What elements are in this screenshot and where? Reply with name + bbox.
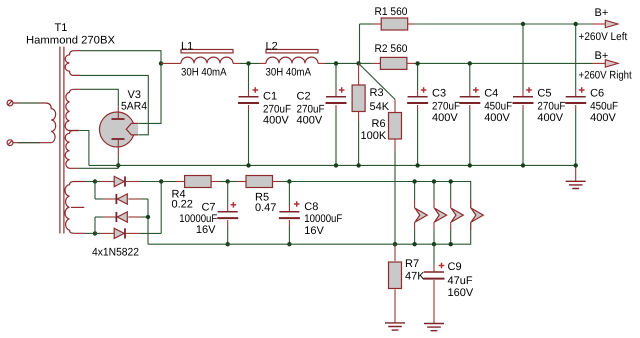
svg-text:4x1N5822: 4x1N5822: [92, 247, 139, 259]
svg-text:30H 40mA: 30H 40mA: [266, 67, 312, 79]
wire: HV winding bottom tap to cathode bottom: [80, 75, 148, 134]
node: Z3 bottom: [449, 242, 453, 246]
protection diode Z3: [451, 182, 464, 245]
wire: primary net segments: [18, 102, 40, 104]
node: C5 bottom: [521, 163, 525, 167]
node: winding4 top junction: [93, 179, 97, 183]
svg-text:270uF: 270uF: [432, 101, 460, 113]
svg-text:C7: C7: [201, 202, 215, 214]
wire: winding2 bottom tap to ground rail: [79, 131, 89, 166]
node: R3 bottom: [356, 163, 360, 167]
svg-text:160V: 160V: [448, 287, 474, 299]
svg-text:C3: C3: [432, 88, 446, 100]
svg-text:C5: C5: [537, 88, 551, 100]
svg-text:R1 560: R1 560: [375, 6, 408, 18]
resistor R6: [389, 99, 402, 244]
node: rectifier output junction: [159, 61, 163, 65]
diode D2 1N5822: [95, 194, 148, 204]
svg-text:400V: 400V: [590, 112, 616, 124]
diode D3 1N5822: [95, 212, 148, 222]
svg-text:+260V Right: +260V Right: [579, 70, 632, 82]
node: C2 bottom: [334, 163, 338, 167]
svg-text:47K: 47K: [405, 271, 425, 283]
svg-text:400V: 400V: [432, 112, 458, 124]
svg-text:400V: 400V: [537, 112, 563, 124]
inductor L1: [181, 50, 233, 64]
svg-text:54K: 54K: [370, 101, 390, 113]
primary terminal 1: [7, 100, 13, 106]
node: Z1 top: [412, 179, 416, 183]
resistor R7: [389, 244, 402, 323]
capacitor C6: [565, 24, 586, 165]
svg-text:R6: R6: [372, 118, 386, 130]
node: main B+ junction: [356, 61, 360, 65]
wire: branch to D2: [94, 182, 96, 200]
svg-text:450uF: 450uF: [484, 101, 512, 113]
protection diode Z4: [471, 200, 484, 230]
wire: cathode top to L1 junction node: [139, 63, 162, 123]
svg-text:16V: 16V: [196, 224, 216, 236]
diode D1 1N5822: [95, 176, 161, 186]
wire: winding4 bottom tap to D4: [85, 232, 95, 234]
protection diode Z2: [434, 182, 447, 245]
wire: winding4 top tap to D1: [85, 181, 95, 183]
capacitor C3: [407, 63, 428, 165]
node: C4 top: [468, 61, 472, 65]
node: C6 / ground: [574, 163, 578, 167]
node: C8 top: [287, 179, 291, 183]
svg-text:C9: C9: [448, 261, 462, 273]
svg-text:L1: L1: [181, 41, 193, 53]
resistor R1: [360, 18, 593, 30]
svg-text:450uF: 450uF: [590, 101, 618, 113]
svg-text:B+: B+: [595, 7, 609, 19]
capacitor C8: [279, 182, 300, 245]
ground symbol main: [575, 165, 577, 181]
svg-text:0.47: 0.47: [255, 202, 276, 214]
primary terminal 2: [7, 140, 13, 146]
svg-text:100K: 100K: [361, 130, 387, 142]
svg-text:T1: T1: [55, 22, 68, 34]
supply arrow B+ left: [592, 20, 618, 27]
svg-text:10000uF: 10000uF: [304, 213, 342, 225]
svg-text:R7: R7: [405, 258, 419, 270]
svg-text:270uF: 270uF: [537, 101, 565, 113]
node: C3 top: [415, 61, 419, 65]
wire: plate1 to winding2 top tap: [80, 89, 118, 106]
svg-text:C2: C2: [297, 91, 311, 103]
node: D3 junction: [146, 215, 150, 219]
svg-text:400V: 400V: [263, 115, 289, 127]
svg-text:5AR4: 5AR4: [121, 101, 147, 113]
capacitor C5: [513, 24, 534, 165]
inductor L2: [266, 50, 318, 64]
node: plus output of bridge: [159, 179, 163, 183]
capacitor C4: [459, 63, 480, 165]
diode D4 1N5822: [95, 228, 161, 238]
wire: branch to D3: [94, 217, 96, 233]
wire: L1 to L2: [233, 62, 240, 64]
protection diode Z1: [415, 182, 428, 245]
node: Z3 top: [449, 179, 453, 183]
capacitor C9: [424, 244, 445, 323]
svg-text:0.22: 0.22: [172, 199, 193, 211]
node: C4 bottom: [468, 163, 472, 167]
node: C5 top: [521, 22, 525, 26]
svg-text:+260V Left: +260V Left: [579, 31, 628, 43]
node: C1 top: [246, 61, 250, 65]
wire: bottom minus rail: [148, 222, 471, 244]
resistor R2: [359, 57, 592, 69]
node: Z2 top: [432, 179, 436, 183]
supply arrow B+ right: [592, 60, 618, 67]
wire: D2/D3 anodes join, to bottom rail: [147, 199, 149, 244]
wire: plate2 to ground rail junction: [117, 157, 119, 168]
svg-text:C6: C6: [590, 88, 604, 100]
capacitor C2: [326, 63, 347, 165]
svg-text:400V: 400V: [297, 115, 323, 127]
capacitor C7: [217, 182, 238, 245]
svg-text:C1: C1: [263, 91, 277, 103]
node: Z1 bottom: [412, 242, 416, 246]
wire: diagonal to R6: [359, 63, 395, 99]
svg-text:B+: B+: [595, 50, 609, 62]
node: C1 bottom: [246, 163, 250, 167]
wire: HV winding top tap to L1 junction node: [80, 51, 161, 63]
tube V3 5AR4: [100, 106, 139, 157]
svg-text:16V: 16V: [304, 225, 324, 237]
svg-text:400V: 400V: [484, 112, 510, 124]
svg-text:R2 560: R2 560: [375, 43, 408, 55]
resistor R4: [161, 176, 228, 188]
svg-text:C4: C4: [484, 88, 498, 100]
node: C7 top: [226, 179, 230, 183]
node: C2 top: [334, 61, 338, 65]
svg-text:V3: V3: [128, 89, 141, 101]
node: winding4 bottom junction: [93, 231, 97, 235]
node: C6 top: [574, 22, 578, 26]
wire: main ground rail: [89, 164, 576, 166]
resistor R3: [352, 63, 365, 165]
node: C3 bottom: [415, 163, 419, 167]
wire: winding3 bottom tap to plate2 node: [79, 167, 119, 169]
svg-text:30H 40mA: 30H 40mA: [181, 67, 227, 79]
svg-text:C8: C8: [304, 201, 318, 213]
node: C7 bottom: [226, 242, 230, 246]
capacitor C1: [238, 63, 259, 165]
wire: L2 to R2/R3 node: [318, 62, 325, 64]
resistor R5: [228, 176, 290, 188]
node: Z2 bottom / C9: [432, 242, 436, 246]
wire: node to L1: [161, 62, 181, 64]
svg-text:Hammond 270BX: Hammond 270BX: [26, 35, 116, 47]
wire: D1/D4 cathodes join: [160, 182, 162, 234]
svg-text:L2: L2: [266, 41, 278, 53]
wire: R1 left lead drop: [359, 24, 361, 63]
transformer T1: [13, 47, 85, 234]
svg-text:47uF: 47uF: [448, 275, 473, 287]
node: plate2 / ground rail junction: [116, 163, 120, 167]
node: R6/R7 junction: [393, 242, 397, 246]
wire: low-voltage rail to zeners: [289, 182, 470, 209]
svg-text:R3: R3: [370, 87, 384, 99]
node: C8 bottom: [287, 242, 291, 246]
